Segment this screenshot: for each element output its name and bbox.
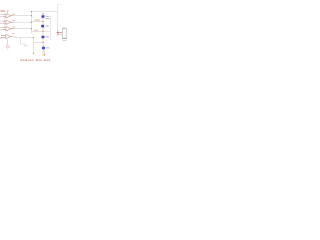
LED D1 [42,15,45,17]
wire U1:C output to bus [14,28,32,30]
power pin stub [7,10,9,11]
wire U1:A output to bus [14,15,32,17]
wire U1:B output to bus [14,21,32,23]
label above D1 [42,12,44,15]
label buzzer [63,39,67,42]
pot RV1 below U1:D [7,39,9,45]
wire pink lower [57,29,59,36]
label lower-left [24,45,28,46]
wire bus lower to LED column y42.5 [34,42,44,44]
junction [42,21,43,22]
label R2 value red [34,30,39,31]
label D1 value [46,17,50,20]
node input D [0,37,2,39]
label U1:D [12,33,15,34]
node arrow bottom [43,54,45,56]
wire right column [50,17,52,41]
wire chain to right column upper [44,16,50,18]
buzzer LS1 body [62,28,66,38]
wire LED chain vertical [42,14,44,57]
junction [31,15,32,16]
wire red vertical link [57,32,59,34]
wire red to buzzer pin1 [57,31,63,33]
label bottom text left [20,60,33,61]
wire red to buzzer pin2 [59,34,63,36]
label U1:B [12,20,15,21]
label D4 [46,47,49,48]
pot body circle [6,45,9,48]
LED D4 [42,47,45,50]
label LM324 text top-left [1,10,6,12]
junction [31,22,32,23]
wire U1:D output routed down [13,37,34,38]
LED D2 [41,25,44,28]
op-amp U1:D [1,34,13,38]
label D2 [46,26,49,27]
junction [33,37,34,38]
wire top-right stub [58,4,62,6]
wire vertical bus upper [31,12,33,34]
wire vertical bus lower [33,38,35,54]
junction top [31,11,32,12]
wire chain to right column lower [44,31,50,33]
wire step lower-left [21,38,27,44]
label R text red [35,20,41,21]
wire input stubs left edge [0,15,3,30]
wire right vertical to buzzer [57,20,59,29]
junction [42,42,43,43]
LED D3 [42,36,45,39]
op-amp U1:B [3,20,13,24]
wire bus to LED column y21.5 [32,21,44,23]
label D3 [46,36,49,37]
label U1:A [12,14,15,15]
op-amp U1:A [3,11,13,18]
pin specks [43,14,44,50]
wire below pot [7,48,9,49]
wire LED chain to bottom arrow [43,50,45,56]
junction [31,28,32,29]
wire bus to LED column y31.5 [32,31,44,33]
label D1 [46,16,49,17]
label U1:C [12,27,15,28]
junction [42,31,43,32]
op-amp U1:C [3,27,13,31]
wire top-right vertical [57,5,59,21]
label bottom text right [36,60,50,61]
wire top feed [32,11,58,13]
junction red [57,32,59,34]
wire bus lower bottom junction [33,53,34,54]
wire reference rail [3,17,5,28]
